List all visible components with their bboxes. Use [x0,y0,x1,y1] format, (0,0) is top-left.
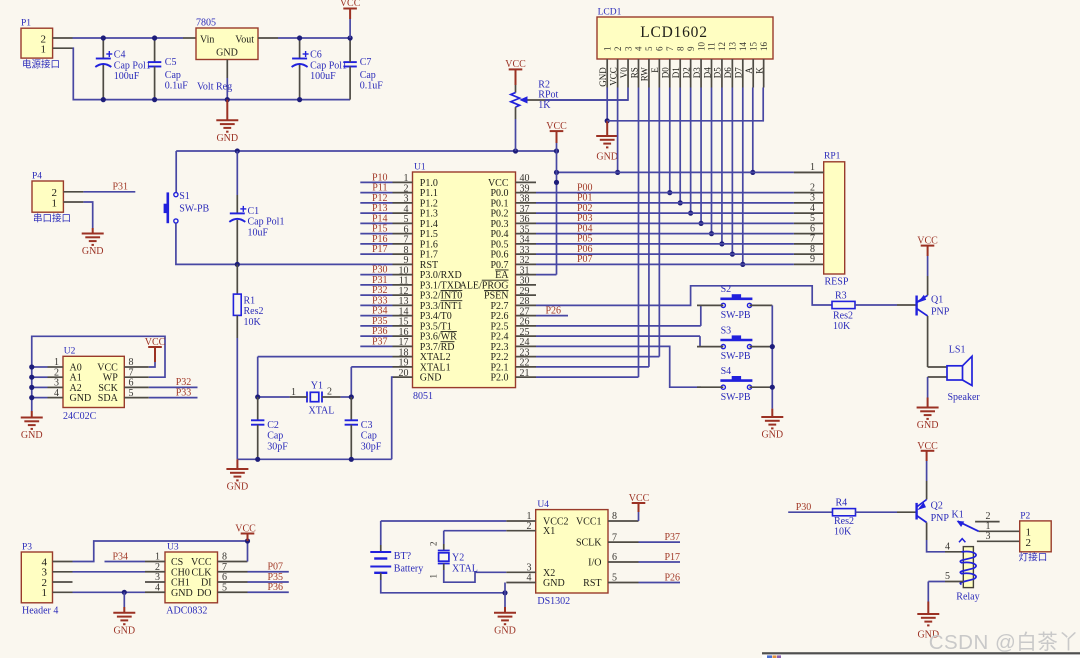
svg-text:ADC0832: ADC0832 [166,606,207,617]
svg-text:CSDN @白茶丫: CSDN @白茶丫 [929,631,1080,654]
svg-text:SCLK: SCLK [576,538,602,549]
svg-text:P36: P36 [267,582,283,593]
svg-text:VCC: VCC [145,337,166,348]
svg-text:GND: GND [113,625,135,636]
svg-text:8051: 8051 [413,391,433,402]
svg-text:VCC: VCC [629,493,650,504]
svg-text:E: E [650,67,660,73]
svg-text:GND: GND [216,133,238,144]
svg-text:4: 4 [54,388,59,399]
svg-text:RST: RST [583,578,601,589]
svg-text:SW-PB: SW-PB [721,392,751,403]
svg-text:P26: P26 [545,305,561,316]
svg-text:X1: X1 [543,526,555,537]
svg-text:VCC: VCC [608,67,618,86]
svg-text:P07: P07 [577,254,593,265]
svg-text:0.1uF: 0.1uF [165,81,189,92]
svg-text:R3: R3 [835,291,847,302]
svg-text:S4: S4 [721,366,732,377]
svg-text:15: 15 [748,42,758,52]
svg-text:Y1: Y1 [311,381,323,392]
svg-text:D7: D7 [734,67,744,78]
svg-text:10K: 10K [834,527,852,538]
svg-text:D0: D0 [661,67,671,78]
svg-text:1: 1 [429,574,439,579]
svg-text:5: 5 [129,388,134,399]
svg-text:XTAL: XTAL [309,406,335,417]
svg-text:Res2: Res2 [244,306,264,317]
svg-text:Cap: Cap [361,431,377,442]
svg-text:GND: GND [21,430,43,441]
svg-text:7805: 7805 [196,18,216,29]
svg-text:SW-PB: SW-PB [179,203,209,214]
svg-text:1: 1 [810,162,815,173]
svg-text:30pF: 30pF [361,441,382,452]
svg-text:GND: GND [917,420,939,431]
svg-text:GND: GND [82,246,104,257]
svg-text:U2: U2 [64,347,76,357]
svg-text:P17: P17 [664,552,680,563]
svg-text:A: A [744,67,754,74]
svg-text:S3: S3 [721,325,732,336]
svg-text:U4: U4 [537,500,549,510]
svg-text:4: 4 [634,46,644,51]
svg-text:RS: RS [629,67,639,78]
svg-text:24C02C: 24C02C [63,411,97,422]
svg-text:RESP: RESP [825,277,849,288]
svg-text:14: 14 [738,42,748,52]
svg-text:3: 3 [986,531,991,542]
svg-text:Y2: Y2 [452,552,464,563]
svg-text:GND: GND [171,588,193,599]
svg-text:Vout: Vout [235,34,254,45]
svg-text:21: 21 [520,368,530,379]
svg-text:VCC: VCC [340,0,361,9]
svg-text:Cap: Cap [267,431,283,442]
svg-text:U1: U1 [414,163,426,173]
svg-text:电源接口: 电源接口 [22,59,60,71]
svg-text:C1: C1 [248,206,260,217]
svg-text:D5: D5 [713,67,723,78]
svg-text:1: 1 [602,47,612,52]
svg-text:9: 9 [810,254,815,265]
svg-text:C5: C5 [165,57,177,68]
svg-text:VCC: VCC [505,59,526,70]
svg-text:4: 4 [155,582,160,593]
svg-text:P37: P37 [372,336,388,347]
svg-text:13: 13 [728,42,738,52]
svg-text:VCC1: VCC1 [576,517,602,528]
svg-text:Relay: Relay [956,592,979,603]
svg-text:P33: P33 [176,387,192,398]
svg-text:10K: 10K [244,317,262,328]
svg-text:GND: GND [494,625,516,636]
svg-text:1: 1 [41,44,47,56]
svg-text:C7: C7 [360,57,372,68]
svg-text:2: 2 [613,47,623,52]
svg-text:D1: D1 [671,67,681,78]
svg-text:Cap Pol1: Cap Pol1 [248,217,285,228]
svg-text:P2: P2 [1020,512,1030,522]
svg-text:K1: K1 [952,510,964,521]
svg-text:8: 8 [675,46,685,51]
svg-text:100uF: 100uF [114,71,140,82]
svg-text:20: 20 [399,368,409,379]
svg-text:D6: D6 [723,67,733,78]
svg-text:Vin: Vin [200,34,214,45]
svg-text:2: 2 [1026,537,1032,549]
svg-text:LCD1: LCD1 [598,8,622,18]
svg-text:SW-PB: SW-PB [721,310,751,321]
svg-text:D3: D3 [692,67,702,78]
svg-text:30pF: 30pF [267,441,288,452]
svg-text:Battery: Battery [394,563,423,574]
svg-text:C4: C4 [114,50,126,61]
svg-text:P3: P3 [22,543,32,553]
svg-text:GND: GND [596,152,618,163]
svg-text:Res2: Res2 [834,516,854,527]
svg-text:PNP: PNP [931,513,950,524]
svg-text:P2.0: P2.0 [490,373,508,384]
svg-text:GND: GND [543,578,565,589]
svg-text:Header 4: Header 4 [22,606,58,617]
svg-text:Q1: Q1 [931,295,943,306]
svg-text:5: 5 [644,46,654,51]
svg-text:VCC: VCC [235,524,256,535]
svg-text:V0: V0 [619,67,629,78]
svg-text:P37: P37 [664,532,680,543]
svg-text:BT?: BT? [394,551,412,562]
svg-text:12: 12 [717,42,727,51]
svg-text:6: 6 [655,46,665,51]
svg-text:P31: P31 [112,182,128,193]
svg-text:LCD1602: LCD1602 [640,24,708,41]
svg-text:C3: C3 [361,420,373,431]
svg-text:DS1302: DS1302 [537,596,570,607]
svg-text:10: 10 [696,42,706,52]
svg-text:P34: P34 [112,551,128,562]
svg-text:1: 1 [42,587,48,599]
svg-text:I/O: I/O [588,558,601,569]
svg-text:Q2: Q2 [931,501,943,512]
svg-text:16: 16 [759,42,769,52]
svg-text:C2: C2 [267,420,279,431]
svg-text:C6: C6 [310,50,322,61]
svg-text:GND: GND [227,482,249,493]
svg-text:RPot: RPot [538,90,558,101]
svg-text:10K: 10K [833,321,851,332]
svg-text:Cap Pol1: Cap Pol1 [310,60,347,71]
svg-text:11: 11 [707,42,717,51]
svg-text:GND: GND [70,393,92,404]
svg-text:灯接口: 灯接口 [1019,552,1048,564]
svg-text:9: 9 [686,46,696,51]
svg-text:RP1: RP1 [824,152,841,162]
svg-text:Cap Pol1: Cap Pol1 [114,60,151,71]
svg-text:U3: U3 [167,543,179,553]
svg-text:P4: P4 [32,172,42,182]
svg-text:3: 3 [623,46,633,51]
svg-text:5: 5 [945,571,950,582]
svg-text:S2: S2 [721,284,732,295]
svg-text:RW: RW [640,67,650,82]
svg-text:SW-PB: SW-PB [721,351,751,362]
svg-text:0.1uF: 0.1uF [360,81,384,92]
svg-text:LS1: LS1 [949,345,966,356]
svg-text:PNP: PNP [931,307,950,318]
svg-text:2: 2 [429,542,439,547]
svg-text:D4: D4 [702,67,712,78]
svg-text:Cap: Cap [360,70,376,81]
svg-text:DO: DO [197,588,211,599]
svg-text:P26: P26 [664,572,680,583]
svg-text:D2: D2 [681,67,691,78]
svg-text:P1: P1 [21,19,31,29]
svg-text:5: 5 [222,582,227,593]
svg-text:10uF: 10uF [248,227,269,238]
svg-text:GND: GND [216,48,238,59]
svg-text:K: K [754,67,764,74]
svg-text:Cap: Cap [165,70,181,81]
svg-text:SDA: SDA [98,393,119,404]
svg-text:Speaker: Speaker [948,392,981,403]
svg-text:S1: S1 [179,191,190,202]
svg-text:XTAL: XTAL [452,563,478,574]
svg-text:7: 7 [665,46,675,51]
svg-text:GND: GND [420,373,442,384]
svg-text:Res2: Res2 [833,310,853,321]
svg-text:串口接口: 串口接口 [33,213,71,225]
svg-text:2: 2 [327,387,332,398]
svg-text:GND: GND [761,430,783,441]
svg-text:100uF: 100uF [310,71,336,82]
svg-text:4: 4 [945,541,950,552]
svg-text:GND: GND [598,67,608,87]
svg-text:R4: R4 [836,498,848,509]
svg-text:1K: 1K [538,100,551,111]
svg-text:1: 1 [52,197,58,209]
svg-text:P17: P17 [372,244,388,255]
